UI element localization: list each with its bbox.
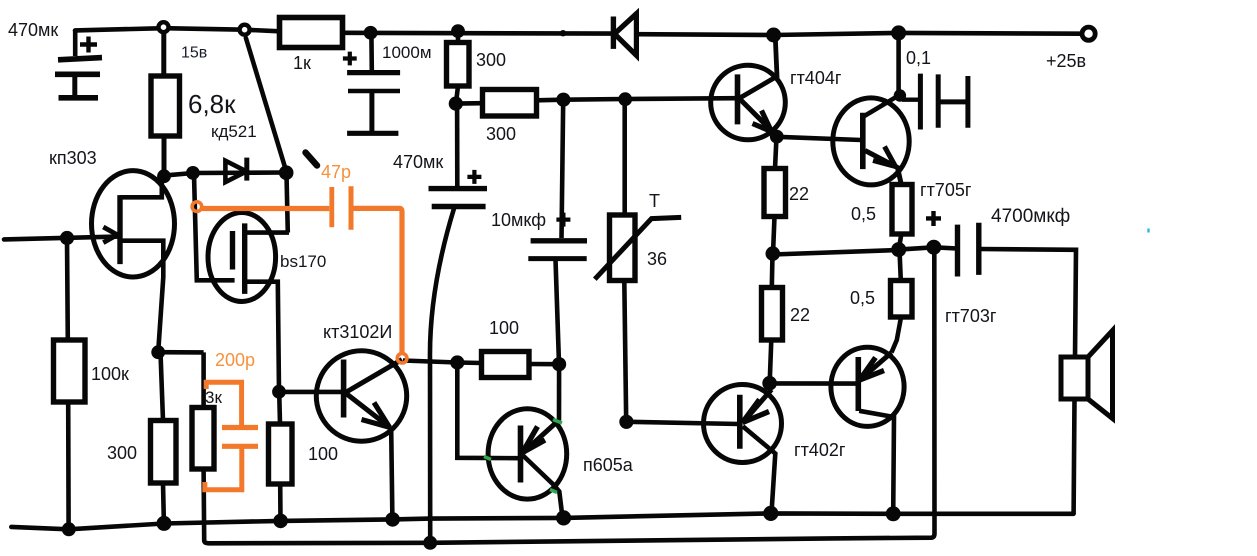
junction node thermistor top (618, 92, 632, 106)
svg-text:15в: 15в (181, 45, 207, 62)
junction node collector row (450, 355, 464, 369)
junction node 402-703 (762, 376, 777, 391)
svg-text:1000м: 1000м (382, 43, 432, 62)
wire diode row y~173 (164, 173, 286, 176)
svg-text:гт705г: гт705г (920, 180, 972, 200)
svg-text:470мк: 470мк (393, 152, 443, 172)
ground junction dots (62, 506, 901, 550)
wire kt3102 collector row (403, 361, 482, 364)
resistor R 300 top (447, 31, 470, 103)
capacitor C 0,1 (902, 74, 968, 130)
svg-text:гт703г: гт703г (945, 306, 997, 326)
capacitor C 470мк (2nd) (429, 104, 488, 207)
transistor гт703г (831, 347, 904, 513)
wire top +25v rail (75, 28, 1083, 35)
svg-text:кп303: кп303 (49, 148, 97, 168)
resistor R 100к (54, 239, 86, 530)
resistor R 300 horizontal (483, 90, 537, 117)
wire input (4, 237, 118, 240)
junction node 705 collector / 0,1 (894, 89, 906, 101)
svg-text:+25в: +25в (1046, 51, 1086, 71)
svg-text:bs170: bs170 (280, 252, 326, 271)
node ring 15в (159, 22, 169, 32)
svg-text:300: 300 (476, 50, 506, 70)
resistor R 0,5 lower (891, 250, 913, 353)
resistor R 300 left (151, 345, 204, 523)
MOSFET bs170 (194, 175, 289, 392)
transistor гт402г (626, 385, 781, 514)
wire mid 22 to output node (773, 250, 899, 255)
svg-text:22: 22 (789, 184, 809, 204)
wire slanted from 470mk cap2 down to line B (430, 209, 454, 543)
thermistor T (595, 99, 681, 422)
svg-text:T: T (649, 191, 660, 211)
wire switch diagonal (246, 38, 286, 171)
junction node bs170 source / base (272, 385, 286, 399)
svg-text:гт402г: гт402г (794, 440, 846, 460)
transistor кт3102И (279, 351, 407, 519)
svg-text:200p: 200p (215, 350, 255, 370)
resistor R 1к (280, 18, 343, 48)
svg-text:47p: 47p (321, 162, 351, 182)
orange cap 200p (205, 382, 258, 490)
svg-text:0,5: 0,5 (851, 204, 876, 224)
capacitor C 10мкф (528, 100, 587, 364)
junction node rail-705 (891, 25, 906, 40)
wire mid rail y~100 (456, 98, 737, 103)
resistor R 100 (p605 base) (482, 352, 560, 378)
capacitor C 4700мкф (926, 211, 1076, 357)
wire output node pair (899, 247, 934, 249)
wire 402-703 base (770, 381, 858, 386)
svg-text:кд521: кд521 (211, 122, 257, 141)
transistor гт705г (833, 33, 909, 185)
junction node thermistor-402 base (619, 415, 633, 429)
svg-text:470мк: 470мк (8, 20, 58, 40)
resistor R 6,8к (151, 32, 180, 176)
svg-text:22: 22 (790, 305, 810, 325)
svg-text:100: 100 (308, 444, 338, 464)
junction node rail-404 (766, 28, 781, 43)
orange cap 47p (192, 186, 407, 363)
svg-text:4700мкф: 4700мкф (991, 206, 1070, 227)
transistor п605a (488, 364, 567, 517)
junction dots diode row (157, 169, 171, 183)
junction node mid rail 10mkf (556, 93, 570, 107)
transistor гт404г (711, 35, 786, 140)
ink dot on rail (560, 30, 566, 36)
svg-text:гт404г: гт404г (790, 68, 842, 88)
svg-text:100к: 100к (91, 364, 129, 384)
node ring switch (240, 25, 250, 35)
junction node 300-470mk (449, 97, 463, 111)
svg-text:0,1: 0,1 (906, 48, 931, 68)
feedback bottom line (line B) (204, 247, 935, 543)
capacitor C1 470mk left (55, 31, 102, 98)
resistor R 3к (192, 352, 214, 469)
wire 404 emitter to 705 base (777, 137, 861, 140)
junction node mid 22 (766, 246, 781, 261)
svg-text:1к: 1к (293, 53, 311, 73)
switch open-contact dash (306, 153, 318, 166)
svg-text:п605a: п605a (583, 455, 634, 475)
junction node 10mkf bottom (552, 357, 566, 371)
junction node 404 emitter (770, 130, 784, 144)
diode кд521 (225, 158, 246, 183)
resistor R 22 lower (762, 254, 783, 383)
wire L to p605a base (457, 363, 519, 459)
svg-text:6,8к: 6,8к (188, 89, 236, 119)
svg-text:100: 100 (489, 318, 519, 338)
green specks (484, 420, 562, 493)
terminal +25в (1082, 27, 1095, 40)
junction node input (60, 231, 74, 245)
ground rail (line A) (11, 513, 1073, 529)
cyan speck (1147, 229, 1149, 233)
resistor R 22 upper (764, 137, 786, 254)
diode top rail (613, 14, 636, 56)
junction node output (891, 242, 906, 257)
junction node output-fb (926, 240, 941, 255)
svg-text:300: 300 (486, 124, 516, 144)
speaker (1061, 331, 1113, 514)
junction node (1k right) (364, 26, 378, 40)
capacitor C 1000м (343, 33, 400, 133)
resistor R 0,5 upper (892, 185, 912, 250)
svg-text:10мкф: 10мкф (491, 210, 546, 230)
svg-text:3к: 3к (205, 388, 222, 407)
svg-text:36: 36 (647, 249, 667, 269)
svg-text:0,5: 0,5 (850, 288, 875, 308)
svg-text:300: 300 (107, 443, 137, 463)
JFET кп303 (92, 171, 175, 352)
resistor R 100 (kt3102 emitter side) (269, 392, 293, 521)
junction node rail-300 (451, 24, 465, 38)
svg-text:кт3102И: кт3102И (323, 322, 392, 342)
